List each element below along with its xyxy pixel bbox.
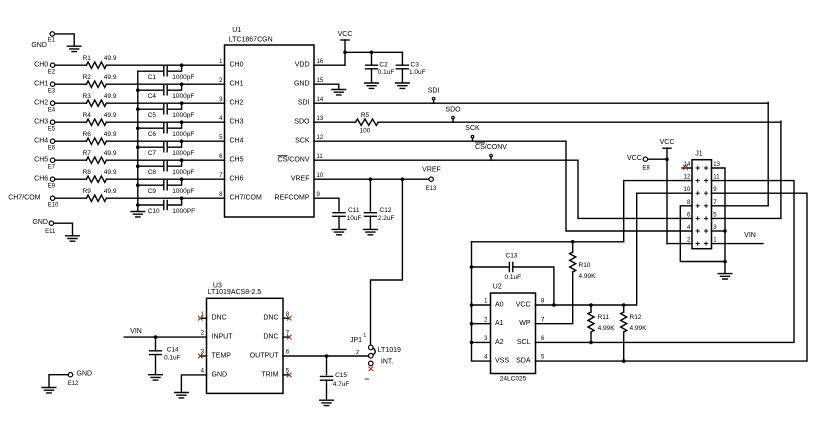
svg-text:CS/CONV: CS/CONV — [278, 157, 310, 164]
wire C2 bottom lead — [371, 69, 373, 82]
junction R11 top on VCC row — [589, 303, 593, 307]
wire U2 WP to R10 — [536, 272, 573, 324]
junction VREF to JP1 branch — [401, 177, 405, 181]
svg-text:CH1: CH1 — [230, 81, 244, 88]
U1 pin label CS/CONV with overline — [278, 156, 310, 164]
wire J1 pin 10 to U2 VCC — [637, 192, 692, 194]
resistor R10 — [570, 252, 576, 272]
svg-text:5: 5 — [541, 355, 545, 361]
wire U2 A0 stub — [472, 304, 491, 306]
svg-text:10uF: 10uF — [347, 215, 362, 222]
svg-text:CH2: CH2 — [230, 100, 244, 107]
capacitor C15 — [321, 376, 333, 380]
wire R3 to U1 pin 3 — [106, 102, 224, 104]
junction C6 on ground bus — [136, 126, 140, 130]
junction C7 on ground bus — [136, 145, 140, 149]
svg-text:SDI: SDI — [298, 100, 310, 107]
terminal E4 CH2 — [50, 101, 54, 105]
svg-text:12: 12 — [684, 175, 691, 181]
wire U2 A2 stub — [472, 341, 491, 343]
svg-text:CH7/COM: CH7/COM — [8, 195, 40, 202]
wire CH2 to R3 — [55, 102, 86, 104]
wire address net to J1 pin 12 — [472, 241, 624, 243]
wire E11 to ground — [54, 223, 73, 235]
net flag CS/CONV — [490, 157, 492, 160]
svg-text:15: 15 — [317, 78, 324, 84]
wire C12 top lead — [369, 179, 371, 211]
svg-text:11: 11 — [713, 175, 720, 181]
resistor R12 — [621, 312, 627, 332]
svg-text:R5: R5 — [361, 112, 370, 119]
wire C4 left lead — [138, 89, 164, 91]
wire C10 left lead — [138, 204, 164, 206]
svg-text:TRIM: TRIM — [261, 371, 278, 378]
svg-text:JP1: JP1 — [350, 337, 362, 344]
wire U2 A1 stub — [472, 323, 491, 325]
ground at C3 — [396, 83, 410, 88]
terminal E1 GND — [50, 32, 54, 36]
wire VIN to U3 INPUT — [124, 336, 206, 338]
svg-text:1: 1 — [484, 299, 488, 305]
svg-text:E8: E8 — [642, 166, 650, 172]
resistor R7 — [86, 157, 106, 163]
svg-text:VCC: VCC — [660, 139, 675, 146]
svg-text:C9: C9 — [148, 188, 157, 195]
wire R10 top lead — [572, 242, 574, 252]
svg-text:8: 8 — [541, 299, 545, 305]
junction VCC to decoupling caps — [343, 51, 347, 55]
terminal E11 GND — [49, 221, 53, 225]
junction R11 bottom on SCL — [589, 341, 593, 345]
svg-text:2: 2 — [356, 350, 359, 356]
capacitor C8 — [164, 162, 167, 171]
wire C3 top lead — [401, 52, 403, 65]
svg-text:R11: R11 — [598, 314, 610, 321]
capacitor C10 — [164, 200, 167, 209]
wire C1 to row CH0 — [167, 65, 181, 71]
wire SDA to J1 pin 9 — [536, 193, 808, 361]
wire VREF to JP1 pin 1 — [371, 179, 403, 345]
svg-text:49.9: 49.9 — [104, 188, 117, 195]
svg-text:SDO: SDO — [294, 119, 310, 126]
wire R11 top lead — [590, 305, 592, 312]
wire VCC to U1 VDD pin 16 — [314, 40, 345, 65]
wire R2 to U1 pin 2 — [106, 83, 224, 85]
svg-text:1000pF: 1000pF — [172, 93, 194, 100]
wire E1 to ground — [55, 34, 74, 46]
svg-text:DNC: DNC — [263, 315, 278, 322]
svg-text:49.9: 49.9 — [104, 150, 117, 157]
wire CH4 to R6 — [55, 140, 86, 142]
svg-text:C10: C10 — [148, 208, 160, 215]
wire C3 bottom lead — [401, 69, 403, 82]
junction C1 on CH0 wire — [180, 63, 184, 67]
wire VCC vertical at J1 — [666, 148, 668, 243]
junction R12 top on VCC row — [622, 303, 626, 307]
wire U3 pin 5 stub — [283, 374, 288, 376]
svg-text:E1: E1 — [48, 37, 56, 43]
svg-text:2.2uF: 2.2uF — [378, 215, 395, 222]
terminal E2 CH0 — [50, 63, 54, 67]
svg-text:12: 12 — [317, 135, 324, 141]
junction C8 on CH5 wire — [180, 158, 184, 162]
svg-text:4: 4 — [201, 369, 205, 375]
svg-text:7: 7 — [219, 173, 223, 179]
svg-text:14: 14 — [317, 97, 324, 103]
wire E8 to VCC vertical — [648, 158, 667, 160]
svg-text:6: 6 — [286, 350, 290, 356]
wire C6 left lead — [138, 127, 164, 129]
wire SDI vertical — [767, 102, 769, 205]
junction pin 8 ground wire — [723, 260, 727, 264]
ground at E11 — [66, 236, 80, 241]
wire C14 top lead — [155, 337, 157, 351]
svg-text:100: 100 — [360, 127, 371, 134]
svg-text:GND: GND — [32, 219, 48, 226]
terminal E6 CH4 — [50, 139, 54, 143]
junction C9 on CH6 wire — [180, 177, 184, 181]
IC U2 24LC025 body — [491, 293, 536, 374]
svg-text:TEMP: TEMP — [212, 353, 232, 360]
junction C7 on CH4 wire — [180, 139, 184, 143]
net flag SCK — [472, 138, 474, 141]
resistor R2 — [86, 81, 106, 87]
ground at U1 pin 15 — [332, 90, 346, 95]
wire C1 left lead — [138, 70, 164, 72]
svg-text:1: 1 — [219, 59, 223, 65]
svg-text:8: 8 — [219, 192, 223, 198]
svg-text:1000pF: 1000pF — [172, 169, 194, 176]
wire U3 pin 1 stub — [202, 317, 207, 319]
wire R12 top lead — [623, 305, 625, 312]
svg-text:49.9: 49.9 — [104, 93, 117, 100]
svg-text:4: 4 — [219, 116, 223, 122]
resistor R11 — [588, 312, 594, 332]
svg-text:SCK: SCK — [465, 125, 480, 132]
svg-text:GND: GND — [212, 371, 228, 378]
svg-text:5: 5 — [713, 212, 717, 218]
svg-text:VCC: VCC — [627, 155, 642, 162]
svg-text:CH2: CH2 — [34, 100, 48, 107]
svg-text:0.1uF: 0.1uF — [164, 354, 181, 361]
svg-text:0.1uF: 0.1uF — [505, 274, 522, 281]
wire U2 address bus vertical — [472, 242, 491, 361]
wire SCK net to J1 pin 4 — [314, 141, 692, 231]
svg-text:E7: E7 — [48, 165, 56, 171]
svg-text:C4: C4 — [148, 93, 157, 100]
wire cap ground bus — [137, 71, 139, 211]
no-connect X on U3 pin 3 TEMP — [198, 354, 203, 359]
terminal E7 CH5 — [50, 158, 54, 162]
svg-text:GND: GND — [294, 81, 310, 88]
svg-text:SDO: SDO — [445, 106, 461, 113]
svg-text:8: 8 — [687, 200, 691, 206]
svg-text:J1: J1 — [695, 151, 703, 158]
svg-text:R3: R3 — [83, 93, 92, 100]
wire U1 SDO to R5 — [314, 121, 356, 123]
no-connect X on U3 pin 5 TRIM — [287, 373, 292, 378]
svg-text:OUTPUT: OUTPUT — [250, 353, 280, 360]
junction C9 on ground bus — [136, 183, 140, 187]
wire R6 to U1 pin 5 — [106, 140, 224, 142]
ground at C15 — [320, 400, 334, 405]
IC U3 LT1019ACS8-2.5 body — [207, 298, 284, 393]
svg-text:C11: C11 — [348, 207, 360, 214]
junction R12 bottom on SDA — [622, 359, 626, 363]
svg-text:E5: E5 — [48, 127, 56, 133]
svg-text:U1: U1 — [232, 27, 241, 34]
svg-text:3: 3 — [713, 225, 717, 231]
VCC power symbol at J1 — [660, 139, 675, 148]
wire E12 to ground — [49, 375, 68, 387]
capacitor C4 — [164, 86, 167, 95]
wire CH1 to R2 — [55, 83, 86, 85]
capacitor C5 — [164, 105, 167, 114]
svg-text:1000PF: 1000PF — [172, 208, 195, 215]
svg-text:R8: R8 — [83, 169, 92, 176]
svg-text:1.0uF: 1.0uF — [409, 69, 426, 76]
svg-text:49.9: 49.9 — [104, 55, 117, 62]
ground at J1 — [718, 274, 732, 279]
wire R8 to U1 pin 7 — [106, 178, 224, 180]
junction VREF to C12 — [369, 177, 373, 181]
svg-text:1000pF: 1000pF — [172, 188, 194, 195]
wire VCC to C2 C3 — [345, 51, 402, 53]
wire C10 to row CH7/COM — [167, 198, 181, 205]
wire C9 to row CH6 — [167, 179, 181, 185]
svg-text:GND: GND — [31, 42, 47, 49]
svg-text:2: 2 — [484, 317, 488, 323]
svg-text:LT1019ACS8-2.5: LT1019ACS8-2.5 — [208, 289, 262, 296]
wire C9 left lead — [138, 184, 164, 186]
svg-text:7: 7 — [713, 200, 717, 206]
connector J1 pin marks — [696, 166, 709, 246]
junction OUTPUT to C15 — [325, 354, 329, 358]
wire CH3 to R4 — [55, 121, 86, 123]
wire R4 to U1 pin 4 — [106, 121, 224, 123]
ground at E12 — [42, 388, 56, 393]
svg-text:16: 16 — [317, 59, 324, 65]
wire J1 pin 7 to SDI — [712, 205, 769, 207]
resistor R6 — [86, 138, 106, 144]
wire U3 GND pin 4 to ground — [181, 375, 206, 392]
svg-text:49.9: 49.9 — [104, 74, 117, 81]
wire C15 top lead — [326, 356, 328, 375]
capacitor C12 — [364, 213, 376, 217]
svg-text:4.99K: 4.99K — [598, 325, 616, 332]
svg-text:2: 2 — [687, 238, 691, 244]
capacitor C14 — [150, 351, 162, 355]
VCC power symbol at U1 — [338, 31, 353, 40]
wire C5 to row CH2 — [167, 103, 181, 109]
svg-text:SDA: SDA — [516, 358, 531, 365]
wire U2 VCC to J1 pin 10 — [536, 193, 637, 305]
wire J1 pin 12 to address net — [624, 180, 692, 182]
svg-text:E3: E3 — [48, 89, 56, 95]
svg-text:3: 3 — [219, 97, 223, 103]
svg-text:CH6: CH6 — [34, 176, 48, 183]
junction R10 top on address net — [571, 240, 575, 244]
svg-text:CH7/COM: CH7/COM — [230, 195, 262, 202]
svg-text:C15: C15 — [335, 372, 347, 379]
junction C5 on CH2 wire — [180, 101, 184, 105]
ground at C14 — [149, 375, 163, 380]
wire C5 left lead — [138, 108, 164, 110]
junction VCC E8 — [665, 157, 669, 161]
svg-text:CH0: CH0 — [34, 62, 48, 69]
svg-text:49.9: 49.9 — [104, 169, 117, 176]
wire C8 to row CH5 — [167, 160, 181, 166]
svg-text:CH6: CH6 — [230, 176, 244, 183]
svg-text:GND: GND — [77, 371, 93, 378]
svg-text:2: 2 — [201, 331, 205, 337]
junction C6 on CH3 wire — [180, 120, 184, 124]
svg-text:4.99K: 4.99K — [579, 273, 597, 280]
terminal E5 CH3 — [50, 120, 54, 124]
svg-text:VREF: VREF — [422, 166, 441, 173]
ground at U3 GND — [175, 393, 189, 398]
svg-text:24LC025: 24LC025 — [500, 376, 527, 383]
wire J1 pin 13 to ground — [712, 168, 726, 273]
wire C15 to ground — [326, 380, 328, 399]
svg-text:1000pF: 1000pF — [172, 74, 194, 81]
svg-text:C13: C13 — [506, 253, 518, 260]
no-connect X on U3 pin 1 — [198, 316, 203, 321]
svg-text:REFCOMP: REFCOMP — [275, 195, 310, 202]
terminal E12 GND — [68, 373, 72, 377]
wire R7 to U1 pin 6 — [106, 159, 224, 161]
no-connect X on U3 pin 7 — [287, 335, 292, 340]
wire J1 pin 1 VIN — [712, 243, 764, 245]
no-connect X on J1 pin 14 — [683, 165, 688, 170]
svg-text:E10: E10 — [48, 203, 59, 209]
svg-text:R9: R9 — [83, 188, 92, 195]
svg-text:CH3: CH3 — [34, 119, 48, 126]
wire SCL to J1 pin 11 — [536, 181, 795, 343]
svg-text:E2: E2 — [48, 70, 56, 76]
svg-text:VCC: VCC — [338, 31, 353, 38]
resistor R5 — [356, 119, 379, 125]
jumper JP1 shunt arc pins 1-2 — [373, 348, 375, 354]
resistor R4 — [86, 119, 106, 125]
ground at cap bus — [131, 212, 145, 217]
ground at E1 — [67, 46, 81, 51]
JP1 small mark — [365, 378, 369, 380]
svg-text:2: 2 — [219, 78, 223, 84]
wire R12 bottom lead — [623, 332, 625, 361]
wire R11 bottom lead — [590, 332, 592, 342]
svg-text:CH4: CH4 — [34, 138, 48, 145]
svg-text:R12: R12 — [630, 314, 642, 321]
svg-text:0.1uF: 0.1uF — [378, 69, 395, 76]
capacitor C6 — [164, 124, 167, 133]
svg-text:A0: A0 — [495, 302, 504, 309]
svg-text:U2: U2 — [493, 284, 502, 291]
terminal E8 VCC — [643, 157, 647, 161]
wire C7 left lead — [138, 146, 164, 148]
svg-text:C3: C3 — [411, 62, 420, 69]
svg-text:INT.: INT. — [381, 358, 394, 365]
svg-text:CH0: CH0 — [230, 62, 244, 69]
svg-text:13: 13 — [317, 116, 324, 122]
wire J1 pin 3 stub — [712, 230, 726, 232]
capacitor C2 — [366, 65, 378, 69]
resistor R8 — [86, 176, 106, 182]
svg-text:DNC: DNC — [263, 334, 278, 341]
net flag SDI — [433, 100, 435, 103]
wire C13 left lead — [472, 266, 510, 268]
svg-text:1000pF: 1000pF — [172, 112, 194, 119]
wire U3 pin 3 stub — [202, 355, 207, 357]
svg-text:SDI: SDI — [428, 88, 440, 95]
capacitor C13 — [509, 262, 512, 271]
wire C6 to row CH3 — [167, 122, 181, 128]
svg-text:1: 1 — [363, 333, 366, 339]
svg-text:1000pF: 1000pF — [172, 150, 194, 157]
terminal E10 CH7/COM — [50, 196, 54, 200]
wire R1 to U1 pin 1 — [106, 64, 224, 66]
ground at C11 — [332, 229, 346, 234]
svg-text:6: 6 — [687, 212, 691, 218]
svg-text:VDD: VDD — [295, 62, 310, 69]
junction pin 3 on ground vertical — [723, 229, 727, 233]
svg-text:E9: E9 — [48, 184, 56, 190]
svg-text:VREF: VREF — [291, 176, 310, 183]
svg-text:E11: E11 — [45, 229, 56, 235]
svg-text:LT1019: LT1019 — [378, 347, 401, 354]
junction A2 on bus — [470, 341, 474, 345]
svg-text:VIN: VIN — [130, 328, 142, 335]
svg-text:4: 4 — [484, 355, 488, 361]
net flag SDO — [452, 119, 454, 122]
wire C14 to ground — [155, 355, 157, 374]
svg-text:R6: R6 — [83, 131, 92, 138]
svg-text:49.9: 49.9 — [104, 131, 117, 138]
junction C4 on ground bus — [136, 88, 140, 92]
jumper JP1 pin 3 — [369, 361, 374, 366]
wire CH6 to R8 — [55, 178, 86, 180]
junction C5 on ground bus — [136, 107, 140, 111]
svg-text:R2: R2 — [83, 74, 92, 81]
no-connect X on U3 pin 8 — [287, 316, 292, 321]
wire CH5 to R7 — [55, 159, 86, 161]
svg-text:SCK: SCK — [295, 138, 310, 145]
svg-text:VSS: VSS — [495, 358, 509, 365]
svg-text:5: 5 — [219, 135, 223, 141]
capacitor C3 — [396, 65, 408, 69]
ground at C12 — [364, 229, 378, 234]
wire U3 OUTPUT to JP1 pin 2 — [283, 355, 369, 357]
no-connect X on JP1 pin 3 — [369, 367, 374, 372]
wire vertical to J1 pin 12 — [623, 181, 625, 242]
capacitor C11 — [333, 213, 345, 217]
svg-text:6: 6 — [219, 154, 223, 160]
junction C4 on CH1 wire — [180, 82, 184, 86]
wire C4 to row CH1 — [167, 84, 181, 90]
svg-text:INPUT: INPUT — [212, 334, 234, 341]
svg-text:CH4: CH4 — [230, 138, 244, 145]
capacitor C9 — [164, 181, 167, 190]
wire R9 to U1 pin 8 — [106, 197, 224, 199]
svg-text:C5: C5 — [148, 112, 157, 119]
svg-text:CH5: CH5 — [34, 157, 48, 164]
svg-text:C12: C12 — [380, 207, 392, 214]
svg-text:E6: E6 — [48, 146, 56, 152]
svg-text:VCC: VCC — [516, 302, 531, 309]
svg-text:9: 9 — [317, 192, 321, 198]
wire J1 pin 14 stub — [682, 167, 692, 169]
svg-text:7: 7 — [541, 317, 545, 323]
